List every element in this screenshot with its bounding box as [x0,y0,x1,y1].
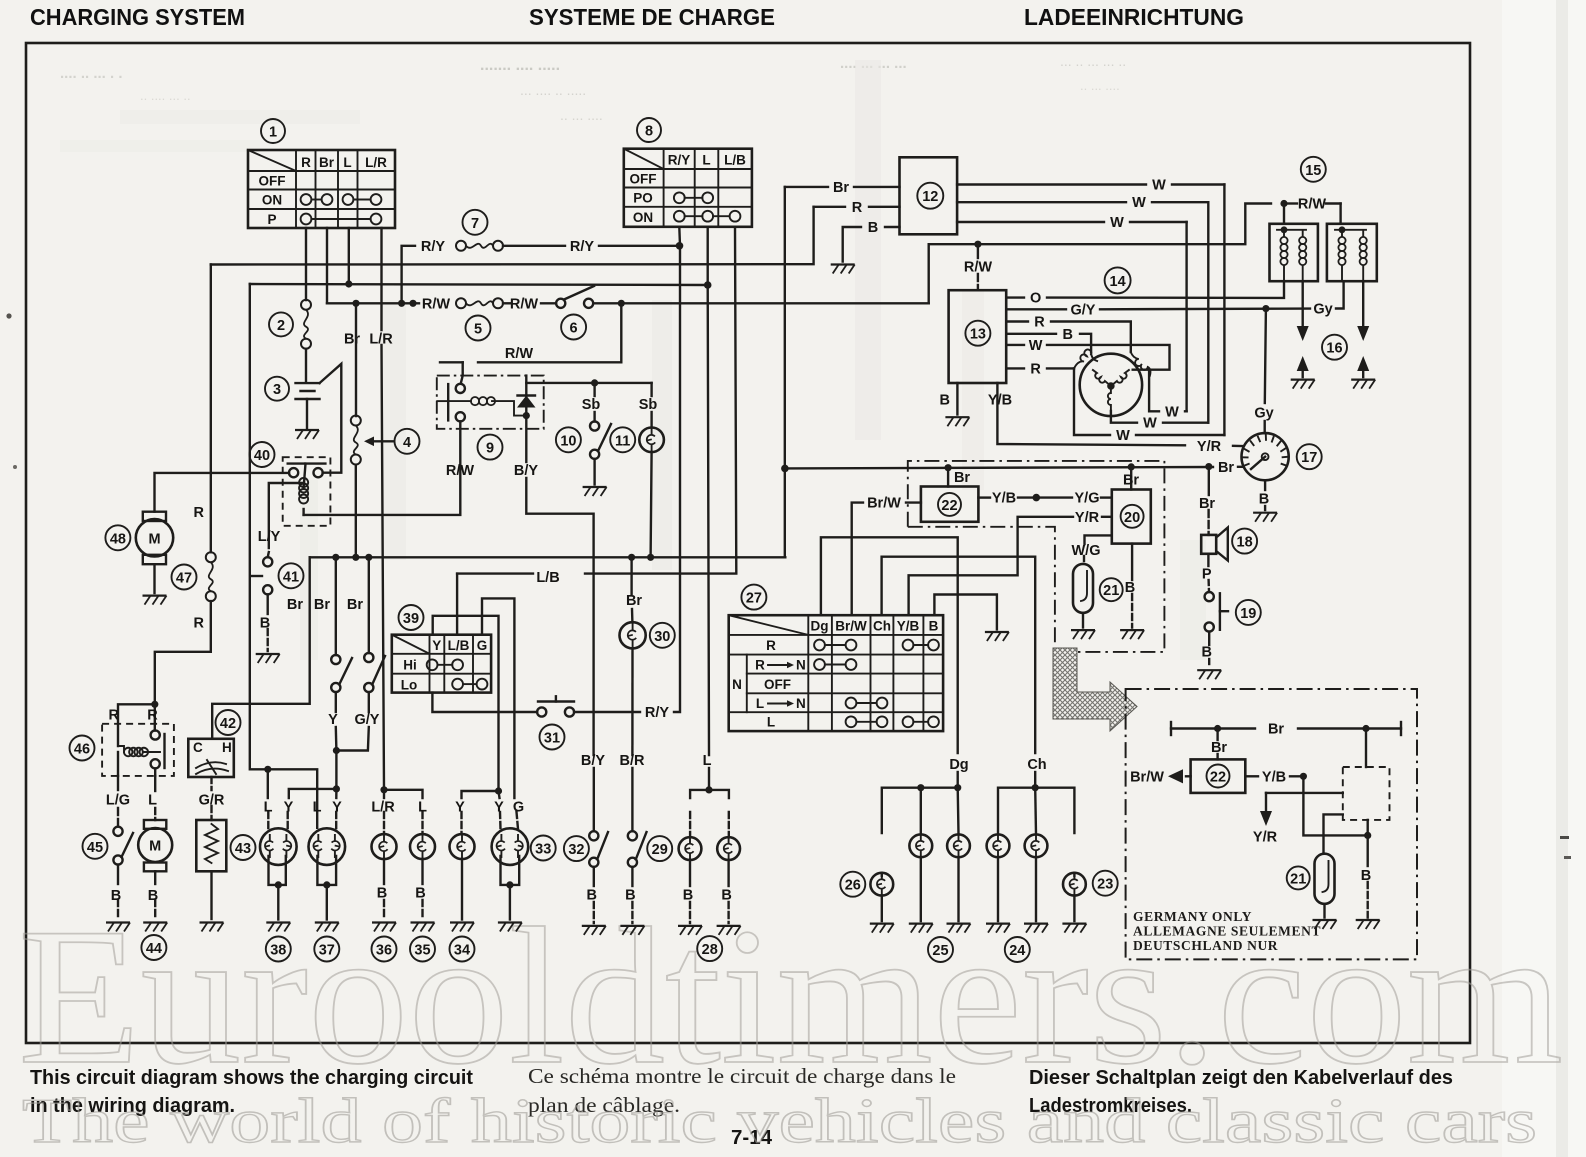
svg-text:42: 42 [220,716,236,732]
diode in relay 9 [517,376,536,416]
svg-text:R/W: R/W [505,346,534,362]
wire: long vertical x=250 from y284 to lamp bracket [250,284,317,828]
junction dot Br tap [352,300,359,307]
lamp 35 [410,834,435,919]
wire: G/Y joins Y chain [336,727,368,751]
lamp 34 [450,834,475,919]
Br main instrument bus [785,467,1213,468]
svg-text:Dg: Dg [811,619,829,634]
circled 4 with arrow [364,429,420,454]
bleed-through noise [60,53,1206,660]
circled 24 [1005,937,1030,962]
svg-text:Lo: Lo [401,678,418,693]
svg-text:.... .. ... . .: .... .. ... . . [60,65,123,82]
ignition coil pack 15b [1327,224,1377,281]
svg-text:G/Y: G/Y [1071,302,1096,318]
circled 27 [741,585,766,610]
wire: Y/B junction down and right [1303,776,1367,835]
wire: G column top bracket down to lamp 33 G [482,598,514,798]
wire: R/W main riser from ignition line to coils [929,204,1271,304]
svg-text:SYSTEME DE CHARGE: SYSTEME DE CHARGE [529,4,775,30]
svg-text:21: 21 [1103,583,1119,599]
svg-text:7: 7 [471,216,479,232]
wire: tach bottom to ground [1264,480,1266,490]
svg-text:PO: PO [633,190,653,205]
wire: dashed unit bottom to junction [1366,820,1368,836]
svg-text:45: 45 [87,840,103,856]
svg-text:L/B: L/B [448,638,470,653]
svg-text:B: B [415,886,425,902]
flasher relay box 20 [1112,490,1151,544]
junction dot to dashed unit [1362,725,1369,732]
svg-text:13: 13 [970,327,986,343]
svg-text:Gy: Gy [1313,302,1332,318]
dashed unit box (germany) [1343,767,1390,820]
svg-text:22: 22 [1210,770,1226,786]
wire: table8 L column long drop [708,227,709,755]
svg-text:22: 22 [941,498,957,514]
svg-text:ON: ON [262,193,282,208]
wire: battery positive diagonal to vertical riser [320,364,342,473]
svg-text:B: B [940,393,950,409]
ground bulb 21 [1071,630,1095,639]
wire: Br into box 22 [947,468,949,487]
svg-text:B: B [683,888,693,904]
svg-text:14: 14 [1110,274,1126,290]
svg-text:Y: Y [284,800,294,816]
ground switch 32a [582,926,606,935]
junction dot Dg at bracket [954,784,961,791]
svg-text:Y: Y [455,800,465,816]
wire: box13 Y/B lead down and right to meter (Y/R) [997,383,1185,445]
circled 26 [840,872,865,897]
svg-text:Ch: Ch [1027,757,1046,773]
svg-text:37: 37 [319,943,335,959]
svg-text:B: B [721,888,731,904]
svg-text:R: R [1030,361,1041,377]
wire: Br2 down to Y switch [335,557,337,655]
svg-text:Br: Br [347,597,363,613]
svg-text:GERMANY ONLY: GERMANY ONLY [1133,909,1252,924]
circled 5 [466,316,491,341]
svg-text:12: 12 [922,189,938,205]
svg-text:R/Y: R/Y [668,153,691,168]
junction bus-Y switch [332,554,339,561]
svg-text:B: B [929,619,939,634]
svg-text:OFF: OFF [764,677,791,692]
horn 18 speaker [1201,467,1228,561]
svg-text:O: O [1030,291,1041,307]
svg-text:B: B [260,616,270,632]
svg-text:Br: Br [314,597,330,613]
wire: table1 Br column down to R/W line [326,228,328,303]
wire: bus left end down to gauge 42 [212,557,310,739]
svg-text:Gy: Gy [1254,406,1273,422]
circled 37 [314,937,339,962]
svg-text:Dg: Dg [949,757,968,773]
circled 20 [1121,505,1144,528]
junction Br-horn [1205,463,1212,470]
rear turn lamp 25b [947,834,970,921]
svg-text:ALLEMAGNE SEULEMENT: ALLEMAGNE SEULEMENT [1133,924,1321,939]
diagram frame border [26,43,1470,1043]
turn lamp bracket right (Ch group) [998,788,1074,834]
svg-text:LADEEINRICHTUNG: LADEEINRICHTUNG [1024,4,1244,30]
svg-text:Y: Y [328,712,338,728]
circled 13 [965,321,990,346]
wire: R/Y continues to dot [599,245,680,247]
ground lamp 25b [947,924,971,933]
circled 35 [410,937,435,962]
junction dot relay9 drop [618,300,625,307]
svg-text:L: L [343,155,351,170]
svg-text:N: N [796,696,806,711]
svg-text:B: B [1201,645,1211,661]
wire: Y bus to lamp 38 Y and lamp 37 Y [289,789,337,798]
svg-text:L: L [703,753,712,769]
svg-text:47: 47 [176,571,192,587]
circled 44 [141,935,166,960]
svg-text:B: B [148,888,158,904]
svg-text:Ch: Ch [873,619,891,634]
wire: table1 L/R column long drop [380,228,382,330]
turn signal switch table 27 [729,615,943,731]
svg-text:... .... .. .....: ... .... .. ..... [520,82,586,98]
spark plug gap 16a [1297,281,1309,377]
wire: fuse7 to table8 R/Y column [503,245,565,247]
tail lamp 29b [717,837,740,923]
wire: switch 31 to R/Y riser [574,711,640,713]
svg-text:Br: Br [833,180,849,196]
junction dot box13 R/W tap [974,241,981,248]
circled 21 [1100,578,1123,601]
junction dot L column joins [345,280,352,287]
wire: R/Y tap up and to fuse 7 [402,246,415,303]
svg-text:B/Y: B/Y [514,463,539,479]
wire: Y/B out right to junction [1245,775,1258,777]
fan motor M (44 group) [138,820,172,919]
svg-text:Y: Y [494,800,504,816]
wire: Y/R branch with down arrow [1260,793,1343,826]
svg-text:G: G [513,800,524,816]
wire: B/R stub to switch 32b [631,768,633,831]
spark plug gap 16b [1357,281,1369,377]
tachometer 17 [1242,433,1289,480]
svg-text:Y/R: Y/R [1253,830,1278,846]
svg-text:Br: Br [287,597,303,613]
svg-text:9: 9 [486,441,494,457]
wire: fuse5 to switch 6 [503,302,511,304]
svg-text:W: W [1152,178,1166,194]
circled 17 [1297,444,1322,469]
svg-text:R: R [194,505,205,521]
svg-text:L/Y: L/Y [258,529,281,545]
wire below fuse 4 [355,465,357,557]
circled 28 [697,936,722,961]
svg-text:L/R: L/R [365,155,387,170]
dimmer table 39 [392,635,491,693]
wire: long R feed from box12 to fuse47 (y=264) [211,207,814,265]
wire: W output 3 [957,221,1104,223]
svg-text:Y/G: Y/G [1075,491,1100,507]
wire: Y feed branch to lamp 34 [462,791,499,798]
svg-text:Hi: Hi [403,658,417,673]
switch 10 [590,421,611,484]
svg-text:17: 17 [1301,450,1317,466]
svg-text:Y/B: Y/B [988,393,1012,409]
relay 40 coil [299,464,308,515]
wire: Br fuse line x=356 down to bus [355,303,357,416]
svg-text:34: 34 [454,943,470,959]
svg-text:Br: Br [626,593,642,609]
ground lamp38 [266,923,290,932]
wire: lamp 11 down to bus [651,452,652,557]
svg-text:27: 27 [746,591,762,607]
svg-text:23: 23 [1097,877,1113,893]
junction dot Y/B [1033,494,1041,502]
switch 6 [556,286,594,308]
wire: box13 output O [1006,296,1024,298]
circled 42 [216,710,241,735]
svg-text:Br/W: Br/W [867,496,901,512]
svg-text:W/G: W/G [1072,543,1101,559]
svg-text:W: W [1132,195,1146,211]
ground under switch 41 [256,654,280,663]
ground horn button [1197,670,1221,679]
junction bus-lamp30 [628,554,635,561]
wire: relay40 coil bottom to relay 9 (R/W) [304,421,461,515]
high beam lamp 30 [620,622,646,648]
junction dot Ch at bracket [1032,784,1039,791]
circled 34 [450,937,475,962]
circled 8 [637,118,661,142]
wire: Sb to lamp 11 [650,383,652,396]
wire: W/G lead from box20 to bulb 21 [1085,535,1112,544]
turn signal switch Y [331,655,352,712]
svg-text:.. .... ... ..: .. .... ... .. [140,88,191,103]
circled 36 [372,937,397,962]
svg-text:B: B [1259,492,1269,508]
svg-text:H: H [222,740,232,755]
germany inset chain box [1126,689,1417,959]
wire: relay46 to fan motor [154,776,156,791]
wire: table1 L column down [348,228,350,284]
svg-text:Sb: Sb [582,397,601,413]
junction dot R/W line [409,300,416,307]
junction dot lamp25a [917,784,924,791]
ground box20 [1120,630,1144,639]
ground lamp34 [450,923,474,932]
indicator bulb 21 [1073,564,1093,628]
junction dot at 155,704 [151,701,158,708]
wire: switch6 to R/W riser corner [593,302,929,304]
svg-text:OFF: OFF [630,172,657,187]
wire: Y column top bracket to lamps 34/33 feed [433,616,499,791]
ground lamp 24b [1024,924,1048,933]
svg-text:G/R: G/R [199,793,225,809]
junction dot Br main tap [781,465,789,473]
svg-text:R: R [755,658,765,673]
wire: Br3 down to G/Y switch [368,557,370,653]
ground lamp35 [411,923,435,932]
circled 6 [561,315,586,340]
svg-text:26: 26 [845,878,861,894]
circled 2 [269,312,293,336]
wire: W output 2 [957,201,1126,203]
junction dot Y feed [495,787,502,794]
dimmer passing switch G/Y [364,653,385,712]
svg-text:25: 25 [932,943,948,959]
svg-text:R/W: R/W [422,296,451,312]
wire: R/W into coil packs [1284,202,1297,204]
svg-text:Br: Br [1123,473,1139,489]
circled 1 [261,119,285,143]
wire: R/W main line y=303 with Br tap [327,302,419,304]
wire: Br into box 20 [1130,467,1132,490]
wire: box13 output G/Y to Gy bus [1006,308,1066,310]
ground switch 32b [620,926,644,935]
circled 29 [647,836,672,861]
svg-text:41: 41 [283,569,299,585]
wire: relay9 feed from R/W dot [478,303,621,362]
svg-text:4: 4 [403,435,411,451]
ignition coil pack 15a [1270,224,1318,281]
svg-text:L: L [702,153,710,168]
circled 30 [650,623,675,648]
circled 45 [83,834,108,859]
svg-text:B: B [625,888,635,904]
svg-text:38: 38 [270,943,286,959]
svg-text:Y/R: Y/R [1197,439,1222,455]
ground lamp33 [498,923,522,932]
junction dot under table8 R/Y [676,242,684,250]
tail lamp 29a [679,837,702,923]
svg-text:15: 15 [1305,163,1321,179]
ground bulb germany [1313,920,1337,929]
relay 46 dashed box [102,724,174,776]
svg-text:G/Y: G/Y [355,712,380,728]
relay 9 contacts and coil [437,384,526,422]
battery 3 [296,383,320,428]
svg-text:G: G [477,638,488,653]
circled 23 [1093,871,1118,896]
svg-text:R/W: R/W [446,463,475,479]
wire: L stub to tail lamp bracket [708,768,710,790]
junction dot Sb switch branch [591,379,598,386]
ground lamp 23 [1062,924,1086,933]
wire: R/W drop to alternator box 13 [977,244,979,258]
svg-text:Y: Y [332,800,342,816]
circled 40 [250,442,275,467]
svg-text:43: 43 [235,841,251,857]
wire: table27 Dg column up and over to lamps [821,537,958,753]
svg-text:Br: Br [1211,740,1227,756]
page speck left margin [6,313,11,318]
svg-text:B: B [868,220,878,236]
svg-text:R: R [109,708,120,724]
junction R/W-R/Y tap [398,300,405,307]
tail lamp feed bracket [690,790,729,798]
circled 11 [610,427,635,452]
junction bus-Br riser [352,554,359,561]
svg-text:B: B [1125,580,1135,596]
svg-text:W: W [1116,428,1130,444]
wire: table1 R column down to fuse 2 [305,228,307,300]
svg-text:B/R: B/R [620,753,646,769]
ground under battery [295,430,319,439]
svg-text:Y/R: Y/R [1075,510,1100,526]
svg-text:Br/W: Br/W [835,619,867,634]
ground lamp37 [315,923,339,932]
wire: L bus y=284 from long vertical to L column [250,284,708,285]
svg-text:L/R: L/R [369,332,393,348]
svg-text:33: 33 [535,842,551,858]
lamp 36 [372,834,397,919]
page speck right edge 1 [1560,836,1569,839]
svg-text:R/Y: R/Y [421,239,446,255]
ground under switch 45 [106,923,130,932]
svg-text:Br/W: Br/W [1130,769,1164,785]
wire: bus dot down to lamp 30 [630,557,632,594]
circled 15 [1301,157,1326,182]
germany only text [1133,909,1321,953]
wire: Ch to lamp 24b [1034,788,1037,834]
svg-text:R: R [852,200,863,216]
wire: gauge 42 to resistor (G/R dashed) [210,777,212,790]
svg-text:39: 39 [403,611,419,627]
svg-text:18: 18 [1237,535,1253,551]
svg-text:W: W [1143,416,1157,432]
wire: Y/B from box22 to flasher 20 [978,496,990,498]
svg-text:P: P [267,212,276,227]
ground table27 B [985,632,1009,641]
relay 40 dashed box [283,457,331,526]
circled 48 [105,525,130,550]
svg-text:N: N [796,658,806,673]
indicator bulb 21 (germany) [1315,854,1335,918]
svg-text:Y: Y [432,638,441,653]
wire: R/Y riser up to table 8 [674,227,680,712]
wire: table27 B column to ground [934,595,997,630]
svg-text:3: 3 [273,382,281,398]
ignition switch table 1: box [248,150,395,228]
wire: W output 1 from box12 [957,183,1146,185]
twin lamp 37 [309,828,346,919]
ground lamp 25a [909,924,933,933]
svg-text:30: 30 [654,629,670,645]
svg-text:6: 6 [570,321,578,337]
svg-text:OFF: OFF [259,174,286,189]
junction Br-box20 [1128,463,1135,470]
wire: stator W return middle (W2) [1111,411,1137,423]
wire: table8 L/B column drop and over to dimmer table [585,227,736,574]
wire: B lead curls to stator top [1091,352,1097,361]
rear turn lamp 24a [987,834,1010,921]
wire: relay40 coil top-left bracket to L/Y [269,483,304,548]
relay 40 contacts [288,464,326,478]
wire: charge bus riser x=785 [784,187,786,557]
page speck right edge 2 [1564,856,1571,859]
svg-text:19: 19 [1240,606,1256,622]
svg-text:11: 11 [615,433,630,449]
svg-text:Br: Br [319,155,335,170]
circled 33 [531,836,556,861]
svg-text:W: W [1165,404,1179,420]
svg-text:.. ... ....: .. ... .... [560,107,603,123]
circled 18 [1232,529,1257,554]
circled 12 [917,183,943,209]
brake switch 32a [589,831,608,923]
